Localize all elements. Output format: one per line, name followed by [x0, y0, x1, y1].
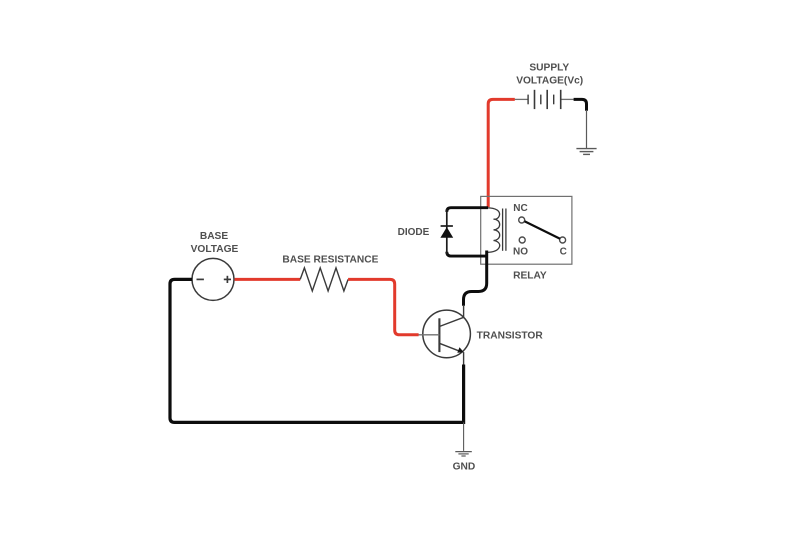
diode D1 triangle — [440, 227, 453, 238]
label DIODE — [398, 227, 430, 238]
svg-text:SUPPLY: SUPPLY — [529, 63, 569, 74]
svg-text:VOLTAGE: VOLTAGE — [191, 244, 239, 255]
battery B1 supply — [515, 90, 574, 109]
svg-text:RELAY: RELAY — [513, 270, 547, 281]
transistor base bar — [438, 318, 440, 352]
svg-text:TRANSISTOR: TRANSISTOR — [477, 331, 544, 342]
label NO — [513, 246, 528, 257]
svg-text:DIODE: DIODE — [398, 227, 430, 238]
svg-text:VOLTAGE(Vc): VOLTAGE(Vc) — [516, 76, 583, 87]
transistor emitter line — [439, 343, 460, 351]
wire red: resistor to transistor base — [348, 279, 419, 334]
wire black: battery to ground — [574, 99, 587, 110]
label SUPPLY VOLTAGE(Vc) — [516, 63, 583, 87]
transistor Q1 circle — [423, 310, 471, 358]
label GND — [453, 462, 476, 473]
label RELAY — [513, 270, 547, 281]
collector lead — [463, 305, 465, 318]
label BASE VOLTAGE — [200, 231, 229, 242]
svg-text:C: C — [560, 246, 567, 257]
source minus — [197, 278, 204, 280]
svg-text:BASE RESISTANCE: BASE RESISTANCE — [282, 254, 378, 265]
label TRANSISTOR — [477, 331, 544, 342]
diode D1 lead — [446, 209, 448, 255]
source V1 circle — [192, 258, 234, 300]
svg-text:BASE: BASE — [200, 231, 229, 242]
emitter lead — [463, 352, 465, 365]
source plus — [224, 278, 231, 280]
wire black: diode loop top — [447, 208, 488, 212]
svg-text:NO: NO — [513, 246, 528, 257]
resistor R1 zigzag — [300, 268, 348, 291]
wire black: diode loop bottom — [447, 252, 487, 256]
contact NO — [519, 237, 525, 243]
transistor emitter arrow — [457, 347, 464, 353]
wire black: coil bottom to transistor collector — [464, 251, 487, 306]
contact C — [560, 237, 566, 243]
wire: gnd stub — [463, 422, 465, 451]
label C — [560, 246, 567, 257]
transistor collector line — [439, 317, 464, 326]
wire black: source left, bottom rail, to emitter — [170, 279, 464, 422]
wire red: source to resistor — [235, 278, 301, 281]
ground (supply) — [576, 149, 596, 155]
ground (gnd) — [455, 452, 472, 456]
label NC — [513, 203, 527, 214]
switch arm NC-C — [525, 221, 561, 238]
relay box — [481, 196, 572, 264]
svg-text:NC: NC — [513, 203, 527, 214]
diode D1 cathode bar — [441, 225, 453, 227]
relay coil L1 — [487, 208, 500, 252]
label BASE RESISTANCE — [282, 254, 378, 265]
transistor base lead — [418, 334, 439, 336]
contact NC — [519, 217, 525, 223]
coil core lines — [502, 209, 504, 251]
wire red: battery to relay coil — [488, 99, 515, 207]
svg-text:GND: GND — [453, 462, 476, 473]
